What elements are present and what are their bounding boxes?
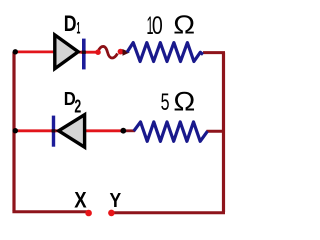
svg-text:2: 2 <box>74 96 81 116</box>
svg-text:0: 0 <box>152 12 163 40</box>
node dot after D1 bar <box>95 49 101 55</box>
wire branch1: node to D1 anode <box>13 51 54 54</box>
svg-text:D: D <box>64 11 77 36</box>
svg-text:Ω: Ω <box>173 87 195 117</box>
wire branch2: D2 anode to junction dot <box>54 129 123 132</box>
diode D2 cathode bar <box>52 116 55 147</box>
junction dot branch2 <box>120 128 126 134</box>
wire squiggle after D1 <box>98 46 118 58</box>
svg-text:Ω: Ω <box>173 10 195 40</box>
wire branch2: junction dot to 5ohm resistor <box>123 129 135 132</box>
wire mid-right (5ohm resistor to right rail) <box>207 130 225 133</box>
node dot top-left junction <box>13 49 18 54</box>
wire right vertical rail <box>222 53 225 213</box>
diode D1 triangle <box>55 35 78 69</box>
wire top-right corner (10ohm resistor to right rail) <box>203 51 225 54</box>
svg-text:Y: Y <box>110 189 122 212</box>
svg-text:1: 1 <box>77 20 81 38</box>
terminal X dot <box>85 210 92 217</box>
node dot mid-left junction <box>13 128 18 133</box>
wire crossing band on D1 bar <box>82 51 86 54</box>
wire crossing band on D2 bar <box>52 129 56 132</box>
resistor R2 5ohm zigzag <box>134 122 208 141</box>
diode D1 cathode bar <box>82 39 86 70</box>
wire branch1: D1 cathode bar to dot <box>79 51 97 54</box>
wire bottom left segment (to X terminal) <box>12 210 87 213</box>
wire left vertical rail <box>12 52 15 211</box>
arrowhead into 10ohm resistor <box>123 49 130 56</box>
wire bottom right segment (from Y terminal) <box>112 211 225 214</box>
svg-text:5: 5 <box>161 90 170 116</box>
terminal Y dot <box>108 210 115 217</box>
diode D2 triangle (pointing left) <box>59 115 85 148</box>
wire branch2: node to D2 cathode bar <box>13 129 52 132</box>
svg-text:X: X <box>74 187 87 212</box>
node dot before 10ohm resistor <box>118 49 124 55</box>
resistor R1 10ohm zigzag <box>127 43 203 62</box>
